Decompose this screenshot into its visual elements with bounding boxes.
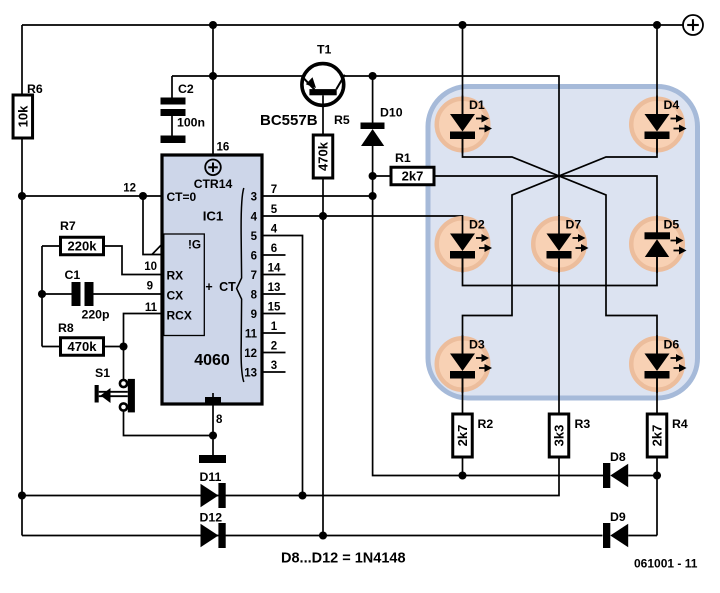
LED D4 bbox=[631, 96, 686, 154]
node junction D12 row x323 bbox=[319, 531, 327, 539]
IC1 CT label and brace bbox=[205, 188, 243, 382]
ground C2 bbox=[161, 136, 186, 144]
IC1 oscillator box bbox=[164, 234, 205, 336]
svg-text:!G: !G bbox=[188, 238, 201, 252]
svg-text:D12: D12 bbox=[200, 511, 223, 525]
svg-text:D7: D7 bbox=[566, 218, 582, 232]
wire collector rail bbox=[343, 76, 560, 234]
wire RCX row bbox=[124, 302, 163, 347]
IC1 input labels bbox=[167, 190, 197, 323]
wire R7-R8 left rail bbox=[41, 246, 43, 347]
LED D3 bbox=[437, 335, 492, 393]
svg-text:220k: 220k bbox=[68, 239, 98, 254]
wire pin3 row bbox=[262, 195, 373, 197]
wire D6 cathode bbox=[656, 379, 658, 415]
LED D6 bbox=[631, 335, 686, 393]
svg-text:3: 3 bbox=[271, 360, 277, 372]
wire +V top rail bbox=[22, 24, 657, 26]
node junction D10-pin3 bbox=[369, 192, 377, 200]
node junction pin12 branch bbox=[139, 192, 147, 200]
svg-text:13: 13 bbox=[244, 367, 257, 379]
IC1 output pin numbers inside bbox=[244, 191, 257, 379]
diode D9 bbox=[603, 510, 628, 548]
wire R4 bottom bbox=[656, 457, 658, 536]
node junction left rail pin12 bbox=[18, 192, 26, 200]
diode D12 bbox=[200, 511, 226, 549]
svg-text:8: 8 bbox=[251, 289, 258, 301]
svg-text:7: 7 bbox=[251, 270, 257, 282]
wire emitter rail bbox=[172, 75, 303, 77]
wire D9 anode bbox=[628, 535, 657, 537]
note drawing number bbox=[634, 557, 698, 571]
wire net D4-D3 cross bbox=[463, 139, 658, 354]
svg-text:D1: D1 bbox=[469, 98, 485, 112]
svg-text:11: 11 bbox=[145, 302, 158, 314]
svg-text:D5: D5 bbox=[664, 218, 680, 232]
svg-text:D8...D12 = 1N4148: D8...D12 = 1N4148 bbox=[281, 551, 406, 567]
svg-text:220p: 220p bbox=[82, 308, 110, 322]
LED D2 bbox=[437, 215, 492, 273]
resistor R2 bbox=[453, 414, 494, 457]
LED D5 bbox=[631, 215, 686, 273]
+V terminal bbox=[657, 15, 703, 35]
svg-text:R5: R5 bbox=[334, 113, 350, 127]
wire D8 row bbox=[463, 475, 604, 477]
switch S1 bbox=[95, 347, 135, 413]
node junction pin8 bbox=[209, 431, 217, 439]
svg-text:4060: 4060 bbox=[194, 352, 230, 369]
resistor R8 bbox=[42, 321, 124, 355]
note diode types bbox=[281, 551, 406, 567]
IC1 pin16 label bbox=[217, 142, 230, 154]
svg-text:7: 7 bbox=[271, 184, 277, 196]
svg-text:R3: R3 bbox=[575, 417, 591, 431]
svg-text:C1: C1 bbox=[65, 268, 81, 282]
svg-text:CT=0: CT=0 bbox=[167, 190, 197, 204]
wire Vdd drop x213 bbox=[212, 25, 214, 155]
svg-text:14: 14 bbox=[268, 262, 281, 274]
wire D1 anode bbox=[462, 25, 464, 114]
wire pin5 row bbox=[262, 236, 303, 496]
wire pin12 reset row bbox=[22, 183, 162, 197]
svg-text:3: 3 bbox=[251, 191, 257, 203]
node junction x372 y76 bbox=[369, 72, 377, 80]
IC1 body bbox=[162, 155, 262, 404]
svg-text:12: 12 bbox=[244, 348, 257, 360]
svg-text:D6: D6 bbox=[664, 338, 680, 352]
LED display block bbox=[428, 87, 698, 399]
svg-text:R1: R1 bbox=[395, 151, 411, 165]
IC1 plus marker bbox=[205, 160, 221, 176]
svg-text:5: 5 bbox=[271, 204, 278, 216]
svg-text:CTR14: CTR14 bbox=[194, 177, 233, 191]
svg-text:2k7: 2k7 bbox=[650, 425, 665, 447]
wire D12 row bbox=[22, 535, 603, 537]
wire pin4 row bbox=[262, 216, 463, 234]
svg-text:R7: R7 bbox=[60, 219, 76, 233]
svg-text:100n: 100n bbox=[177, 116, 205, 130]
node junction R5 base bbox=[319, 212, 327, 220]
svg-text:RX: RX bbox=[167, 269, 184, 283]
svg-text:IC1: IC1 bbox=[203, 209, 224, 224]
wire left rail lower bbox=[21, 138, 23, 536]
svg-text:15: 15 bbox=[268, 301, 281, 313]
node junction C1 tap bbox=[38, 290, 46, 298]
node junction x213 y76 bbox=[209, 72, 217, 80]
svg-text:R4: R4 bbox=[672, 417, 688, 431]
wire net D1-D6 cross bbox=[463, 139, 658, 354]
svg-text:D11: D11 bbox=[200, 470, 222, 484]
resistor R1 bbox=[373, 151, 559, 185]
resistor R6 bbox=[13, 82, 43, 138]
resistor R7 bbox=[42, 219, 162, 275]
LED D7 bbox=[533, 215, 588, 273]
svg-text:9: 9 bbox=[251, 309, 257, 321]
wire D4 anode bbox=[656, 25, 658, 114]
svg-text:D4: D4 bbox=[664, 98, 680, 112]
svg-text:CX: CX bbox=[167, 289, 184, 303]
svg-text:16: 16 bbox=[217, 142, 230, 154]
svg-text:+: + bbox=[205, 280, 212, 294]
node junction R4 bottom bbox=[653, 471, 661, 479]
svg-text:R2: R2 bbox=[478, 417, 494, 431]
diode D8 bbox=[603, 450, 628, 488]
svg-text:13: 13 bbox=[268, 282, 281, 294]
svg-text:D9: D9 bbox=[610, 510, 626, 524]
wire R3 bottom bbox=[22, 457, 559, 496]
svg-text:3k3: 3k3 bbox=[552, 425, 567, 447]
IC1 labels bbox=[194, 177, 233, 369]
clock edge symbol bbox=[152, 245, 161, 254]
wire pin8 ground bbox=[213, 404, 223, 455]
svg-text:R8: R8 bbox=[58, 321, 74, 335]
wire D10 anode drop bbox=[373, 146, 463, 476]
node junction top rail x462 bbox=[458, 21, 466, 29]
node junction top rail x657 bbox=[653, 21, 661, 29]
wire R5 column bbox=[322, 178, 324, 536]
svg-text:2k7: 2k7 bbox=[455, 425, 470, 447]
diode D10 bbox=[361, 76, 403, 146]
svg-text:4: 4 bbox=[271, 223, 278, 235]
node junction R2-D8 row bbox=[458, 471, 466, 479]
svg-text:1: 1 bbox=[271, 321, 278, 333]
wire clock branch bbox=[143, 196, 161, 255]
node junction D11 row x302 bbox=[298, 491, 306, 499]
node junction R8-S1 bbox=[119, 342, 127, 350]
wire S1 to ground node bbox=[124, 411, 214, 436]
svg-text:10: 10 bbox=[144, 261, 157, 273]
svg-text:CT: CT bbox=[219, 280, 236, 294]
wire D7 cathode bbox=[558, 259, 560, 415]
wire D8 anode bbox=[628, 475, 657, 477]
svg-text:9: 9 bbox=[147, 281, 153, 293]
IC1 unconnected output stubs bbox=[262, 255, 286, 372]
svg-text:RCX: RCX bbox=[167, 309, 192, 323]
svg-text:6: 6 bbox=[251, 250, 257, 262]
svg-text:D2: D2 bbox=[469, 218, 485, 232]
svg-text:12: 12 bbox=[123, 183, 136, 195]
svg-text:470k: 470k bbox=[68, 339, 98, 354]
wire D3 cathode bbox=[462, 379, 464, 415]
node junction D10-R1 bbox=[369, 172, 377, 180]
LED D1 bbox=[437, 96, 492, 154]
svg-text:10k: 10k bbox=[15, 105, 30, 127]
svg-text:D3: D3 bbox=[469, 338, 485, 352]
diode D11 bbox=[200, 470, 226, 508]
resistor R4 bbox=[647, 414, 688, 457]
svg-text:D8: D8 bbox=[610, 450, 626, 464]
svg-text:C2: C2 bbox=[178, 82, 194, 96]
svg-text:8: 8 bbox=[216, 414, 223, 426]
capacitor C1 bbox=[42, 268, 162, 322]
svg-text:S1: S1 bbox=[95, 366, 110, 380]
capacitor C2 bbox=[161, 76, 206, 136]
svg-text:T1: T1 bbox=[317, 43, 332, 57]
ground IC1 pin8 bbox=[199, 455, 226, 463]
svg-text:4: 4 bbox=[251, 211, 258, 223]
node junction top rail x213 bbox=[209, 21, 217, 29]
resistor R3 bbox=[549, 414, 590, 457]
transistor T1 bbox=[260, 43, 345, 136]
svg-text:2k7: 2k7 bbox=[402, 169, 424, 184]
wire R2 bottom bbox=[462, 457, 464, 476]
svg-text:BC557B: BC557B bbox=[260, 112, 318, 129]
wire left rail upper bbox=[21, 25, 23, 95]
IC1 pin8 marker bbox=[205, 393, 221, 403]
resistor R5 bbox=[313, 113, 350, 178]
svg-text:6: 6 bbox=[271, 243, 277, 255]
wire net R1-D5 cathode bbox=[559, 176, 657, 233]
svg-text:2: 2 bbox=[271, 340, 277, 352]
node junction D11 row left rail bbox=[18, 491, 26, 499]
svg-text:061001 - 11: 061001 - 11 bbox=[634, 557, 698, 571]
wire net D2-D5 anode bbox=[463, 255, 658, 286]
svg-text:D10: D10 bbox=[380, 106, 403, 120]
svg-text:470k: 470k bbox=[316, 141, 331, 171]
svg-text:11: 11 bbox=[245, 328, 258, 340]
svg-text:R6: R6 bbox=[27, 82, 43, 96]
svg-text:5: 5 bbox=[251, 231, 258, 243]
IC1 output pin numbers outside bbox=[268, 184, 281, 372]
